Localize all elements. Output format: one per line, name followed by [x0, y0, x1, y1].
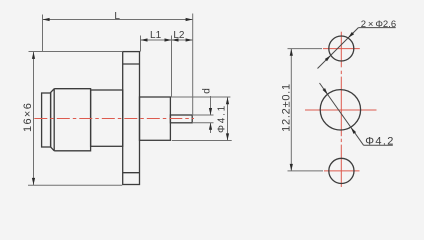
bottom hole horizontal centerline — [324, 170, 360, 172]
dimension line d lower segment — [210, 123, 212, 133]
svg-text:L1: L1 — [150, 30, 162, 41]
extension line at flange right face (for L1) — [140, 36, 142, 52]
svg-text:12.2±0.1: 12.2±0.1 — [281, 83, 293, 132]
arrow L left — [43, 18, 50, 21]
arrow on center hole lower-right — [351, 127, 356, 134]
left barrel between nut and flange — [91, 90, 123, 146]
arrow 16x6 bottom — [32, 178, 35, 185]
extension line bottom hole center — [288, 170, 324, 172]
center hole (phi 4.2) — [320, 90, 360, 130]
arrow phi4.1 top — [226, 97, 229, 104]
extension line left of dimension L — [42, 15, 44, 53]
middle hole horizontal centerline — [305, 109, 377, 111]
svg-text:16×6: 16×6 — [22, 102, 34, 132]
center contact pin — [170, 115, 192, 123]
arrow L1 right — [165, 38, 172, 41]
top hole horizontal centerline — [323, 48, 360, 50]
extension line barrel bottom (for phi 4.1) — [172, 140, 232, 142]
dimension line d upper segment — [210, 96, 212, 115]
arrow L1 left — [141, 38, 148, 41]
centerline of side view (red dash-dot) — [34, 118, 194, 120]
flange plate (side view) — [123, 52, 140, 185]
connector end cap (side view, left) — [42, 93, 51, 147]
leader line phi4.2 — [320, 83, 364, 145]
extension line 16x6 top — [29, 51, 123, 53]
dimension line 12.2 — [290, 49, 292, 171]
svg-text:Φ4.1: Φ4.1 — [217, 104, 228, 133]
svg-text:L2: L2 — [173, 30, 185, 41]
leader line 2x phi2.6 — [318, 28, 359, 69]
arrow d bottom — [209, 123, 212, 130]
extension line 16x6 bottom — [28, 184, 122, 186]
arrow L2 right — [186, 38, 193, 41]
arrow on top hole upper-right — [348, 32, 354, 38]
arrow L2 left — [172, 38, 179, 41]
right barrel (dielectric boss) — [140, 97, 171, 140]
arrow L right — [186, 18, 193, 21]
arrow 16x6 top — [32, 52, 35, 59]
extension line at pin tip (for L and L2) — [192, 14, 194, 115]
bottom mounting hole (phi 2.6) — [329, 158, 354, 183]
arrow 12.2 top — [290, 49, 293, 56]
svg-text:d: d — [201, 88, 212, 94]
flange upper edge line — [123, 63, 140, 65]
coupling nut body (side view) — [51, 89, 91, 151]
svg-text:L: L — [114, 11, 120, 22]
dimension line phi 4.1 — [227, 97, 229, 140]
extension line top hole center — [288, 48, 323, 50]
flange lower edge line — [123, 172, 140, 174]
arrow on top hole lower-left — [325, 55, 331, 61]
top mounting hole (phi 2.6) — [329, 36, 354, 61]
vertical centerline through holes (red dash-dot) — [305, 32, 377, 187]
arrow 12.2 bottom — [290, 164, 293, 171]
svg-text:2 × Φ2.6: 2 × Φ2.6 — [361, 19, 396, 30]
arrow on center hole upper-left — [323, 88, 328, 95]
arrow phi4.1 bottom — [226, 133, 229, 140]
extension line at barrel right face (for L1/L2) — [171, 36, 173, 97]
svg-text:Φ4.2: Φ4.2 — [365, 135, 394, 147]
extension line barrel top (for phi 4.1) — [171, 96, 230, 98]
dimension line 16x6 — [33, 52, 35, 185]
dimension line L1 L2 — [141, 39, 193, 41]
extension line pin bottom (for d) — [192, 122, 214, 124]
arrow d top — [209, 108, 212, 115]
extension line pin top (for d) — [192, 114, 214, 116]
dimension line L — [43, 19, 193, 21]
